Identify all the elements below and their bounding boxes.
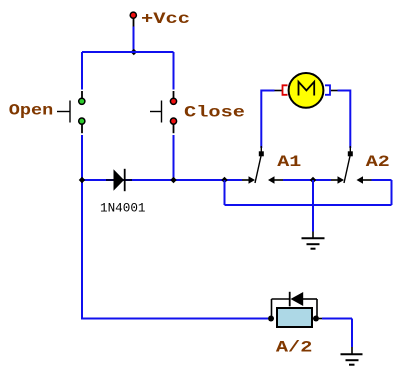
wire center ground drop: [312, 180, 314, 232]
node junction loop left: [221, 177, 228, 184]
motor M letter: [299, 82, 315, 96]
relay coil A/2 terminals: [268, 316, 274, 322]
svg-text:A/2: A/2: [276, 339, 313, 357]
svg-text:Close: Close: [184, 104, 245, 122]
wire A2 right to corner: [372, 179, 392, 181]
node junction left rail: [79, 177, 86, 184]
switch A1 right contact arrow: [268, 176, 283, 183]
wire coil right to ground: [319, 318, 322, 320]
flyback diode over coil: [272, 292, 318, 318]
wire motor right drop: [349, 90, 351, 149]
svg-text:+Vcc: +Vcc: [141, 10, 190, 28]
pushbutton SW2 Close: [150, 91, 177, 133]
wire left vertical long drop: [81, 180, 83, 319]
wire motor left feed horizontal: [261, 90, 274, 92]
switch A2 left contact arrow: [331, 176, 344, 183]
motor M1 left terminal bracket: [283, 85, 288, 95]
wire left drop to Open button: [81, 52, 83, 90]
wire between A1 and A2: [283, 179, 331, 181]
motor M1 body: [289, 73, 324, 108]
diode D1 1N4001: [106, 169, 132, 191]
motor M1 right lead: [331, 90, 338, 92]
ground center: [302, 232, 325, 249]
+Vcc terminal dot: [130, 12, 136, 18]
wire top rail horizontal: [82, 51, 174, 53]
motor M1 right terminal bracket: [325, 85, 330, 95]
svg-text:1N4001: 1N4001: [100, 200, 146, 215]
wire bottom long horizontal: [81, 318, 268, 320]
ground right: [341, 347, 363, 365]
wire Vcc vertical: [133, 27, 135, 53]
wire motor right feed horizontal: [338, 90, 351, 92]
relay coil A/2 body: [277, 308, 312, 327]
svg-text:A2: A2: [366, 153, 390, 171]
wire motor left drop: [260, 90, 262, 149]
motor M1 left lead: [275, 90, 283, 92]
switch A2 pole: [344, 146, 353, 183]
wire main horizontal rail: [82, 179, 242, 181]
wire loop right vertical: [391, 180, 393, 205]
node junction Close drop: [170, 177, 177, 184]
wire Close button down to main rail: [173, 135, 175, 180]
wire loop bottom horizontal: [225, 204, 392, 206]
node junction Vcc rail: [131, 49, 138, 56]
svg-text:Open: Open: [9, 102, 54, 120]
switch A2 right contact arrow: [357, 176, 372, 183]
svg-text:A1: A1: [277, 153, 301, 171]
switch A1 left contact arrow: [242, 176, 255, 183]
node junction mid contacts: [310, 177, 317, 184]
pushbutton SW1 Open: [57, 91, 85, 133]
switch A1 pole: [255, 146, 264, 183]
wire right drop to Close button: [173, 52, 175, 90]
wire loop left vertical: [224, 180, 226, 205]
wire Open button down to main rail: [81, 135, 83, 180]
